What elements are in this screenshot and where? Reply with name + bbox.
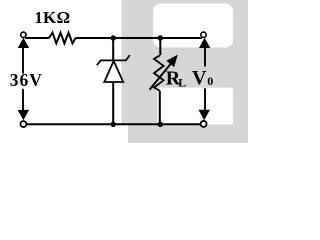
white card bottom <box>158 88 234 125</box>
gray background panel bottom <box>128 124 248 143</box>
wire RL branch bottom <box>159 91 161 124</box>
wire zener branch bottom <box>112 82 114 123</box>
resistor R1 1KΩ zigzag <box>49 33 76 44</box>
terminal top-right <box>201 32 206 37</box>
36V up arrow <box>18 38 29 74</box>
svg-text:1KΩ: 1KΩ <box>34 8 70 27</box>
variable resistor arrow through RL <box>150 55 178 90</box>
zener diode D1 cathode bar <box>97 55 130 65</box>
V0 up arrow <box>199 38 210 67</box>
white rounded card top <box>153 4 233 48</box>
wire bottom rail <box>27 123 201 125</box>
wire top rail right <box>76 37 203 39</box>
svg-text:V: V <box>192 67 207 89</box>
terminal bottom-right <box>201 121 207 127</box>
zener diode D1 anode triangle <box>104 61 123 82</box>
node dot top RL <box>158 35 163 40</box>
svg-text:0: 0 <box>207 74 213 88</box>
gray background panel right <box>122 0 249 125</box>
page background <box>0 0 248 143</box>
terminal bottom-left <box>20 121 26 127</box>
node dot bottom RL <box>158 122 163 127</box>
V0 down arrow <box>199 88 210 120</box>
svg-text:36V: 36V <box>10 70 43 90</box>
wire RL branch top <box>159 39 161 55</box>
node dot bottom zener <box>111 122 116 127</box>
node dot top zener <box>111 35 116 40</box>
resistor RL zigzag <box>154 55 164 90</box>
svg-text:L: L <box>178 75 186 89</box>
wire zener branch top <box>112 39 114 60</box>
terminal top-left <box>21 32 26 37</box>
wire top rail left <box>25 37 49 39</box>
36V down arrow <box>18 89 29 121</box>
